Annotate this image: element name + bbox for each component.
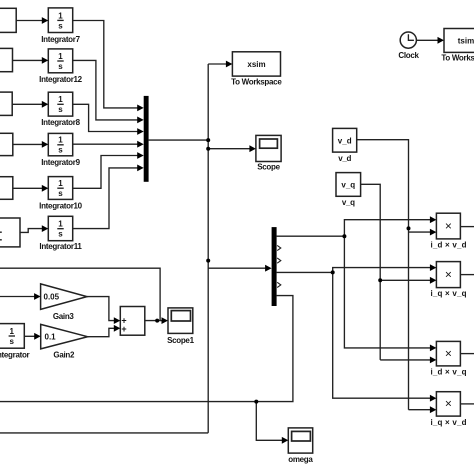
wire Integrator7 to Mux input 1 (73, 21, 139, 108)
wire v_d bottom to multiplier 4 input 2 (409, 409, 431, 411)
wire trunk vertical (207, 64, 209, 433)
junction dot v_q branch (378, 278, 382, 282)
svg-text:s: s (58, 21, 63, 30)
Integrator7 fraction bar (57, 19, 63, 21)
gain Gain2 triangle (41, 324, 88, 349)
wire branch to Demux (208, 267, 266, 269)
svg-text:1: 1 (58, 179, 63, 188)
wire Mux output to trunk node (149, 139, 209, 141)
wire input to Gain3 from left edge (0, 296, 35, 298)
svg-text:v_d: v_d (338, 137, 352, 146)
wire Clock to tsim To Workspace1 (416, 39, 438, 41)
block Scope1 (168, 308, 193, 334)
svg-text:Clock: Clock (398, 51, 419, 60)
wire v_q branch to multiplier 2 input 2 (380, 279, 431, 281)
svg-text:tsim: tsim (458, 37, 474, 46)
block v_d (333, 128, 357, 152)
arrowhead into Scope (249, 145, 256, 152)
arrowhead multiplier 2 input 2 (430, 277, 437, 284)
svg-text:1: 1 (58, 220, 63, 229)
svg-text:s: s (58, 230, 63, 239)
arrowhead into Demux (265, 265, 272, 272)
arrowhead multiplier 3 input 1 (430, 345, 437, 352)
wire v_q bottom to multiplier 3 input 2 (380, 359, 431, 361)
wire Demux output 6 (omega) long feedback to left edge (0, 296, 293, 402)
wire Demux output 1 (i_d) (277, 235, 345, 237)
arrowhead into Integrator9 (42, 141, 49, 148)
integrator Integrator12 (48, 49, 72, 73)
wire Integrator10 to Mux input 5 (73, 156, 139, 189)
svg-text:Integrator10: Integrator10 (39, 201, 82, 210)
arrowhead Mux input 1 (137, 105, 144, 112)
wire i_q branch down to multiplier 4 input 1 (333, 272, 431, 398)
multiplier block i_q x v_q (436, 262, 460, 288)
multiplier block i_d x v_d (436, 213, 460, 239)
arrowhead multiplier 1 input 2 (430, 229, 437, 236)
Integrator9 fraction bar (57, 144, 63, 146)
svg-text:s: s (58, 189, 63, 198)
unconnected Demux output 5 chevron (277, 282, 281, 287)
wire v_q to vertical drop (361, 184, 381, 360)
source block S1 (cut off at left edge) (0, 8, 16, 32)
arrowhead Sum input 2 (114, 325, 121, 332)
multiplier 3 output wire (460, 353, 474, 355)
arrowhead Mux input 6 (137, 165, 144, 172)
svg-text:Integrator7: Integrator7 (41, 35, 80, 44)
multiplier 1 output wire (460, 226, 474, 228)
source block S4 (0, 133, 13, 155)
svg-text:xsim: xsim (247, 60, 265, 69)
svg-text:1: 1 (58, 95, 63, 104)
svg-text:omega: omega (288, 455, 313, 464)
junction dot trunk at scope branch (206, 147, 210, 151)
arrowhead into Integrator12 (42, 57, 49, 64)
junction dot sum output feedback (155, 319, 159, 323)
integrator Integrator10 (48, 177, 72, 200)
wire i_d branch down to multiplier 3 input 1 (344, 236, 431, 348)
arrowhead into Gain2 (34, 333, 41, 340)
wire branch to Scope (208, 148, 250, 150)
omega scope screen (292, 431, 311, 441)
arrowhead multiplier 2 input 1 (430, 264, 437, 271)
junction dot trunk at demux branch (206, 259, 210, 263)
svg-text:i_d × v_d: i_d × v_d (430, 241, 466, 250)
arrowhead Mux input 3 (137, 128, 144, 135)
arrowhead into tsim To Workspace1 (438, 37, 445, 44)
wire omega branch to omega scope (256, 402, 282, 441)
block xsim To Workspace (232, 52, 280, 76)
block v_q (336, 173, 361, 197)
svg-text:0.05: 0.05 (44, 292, 60, 301)
wire S5 to Integrator10 (13, 187, 43, 189)
svg-text:i_q × v_q: i_q × v_q (430, 289, 466, 298)
source block S5 (0, 177, 13, 200)
unconnected Demux output 2 chevron (277, 245, 281, 250)
arrowhead multiplier 4 input 2 (430, 406, 437, 413)
svg-text:Integrator9: Integrator9 (41, 158, 80, 167)
svg-text:v_q: v_q (342, 198, 355, 207)
unconnected Demux output 3 chevron (277, 258, 281, 263)
svg-text:Scope1: Scope1 (167, 336, 195, 345)
wire Integrator to Gain2 (24, 335, 35, 337)
integrator Integrator (cut off at left edge) (0, 324, 24, 349)
arrowhead Mux input 5 (137, 152, 144, 159)
junction dot i_q branch (331, 270, 335, 274)
Integrator fraction bar (9, 335, 15, 337)
multiplier block i_d x v_q (436, 341, 460, 366)
svg-text:s: s (58, 105, 63, 114)
wire S2 to Integrator12 (13, 59, 43, 61)
svg-text:Integrator12: Integrator12 (39, 75, 82, 84)
arrowhead multiplier 1 input 1 (430, 216, 437, 223)
source block S3 (0, 92, 12, 115)
svg-text:×: × (445, 397, 452, 411)
svg-text:s: s (58, 62, 63, 71)
sum block Sum (120, 307, 145, 336)
source block S6 inner text marks (0, 232, 2, 240)
arrowhead into Scope1 (162, 317, 169, 324)
source block S2 (0, 48, 13, 71)
mux Mux bar (144, 96, 149, 182)
integrator Integrator11 (48, 216, 72, 240)
arrowhead into Integrator11 (42, 225, 49, 232)
multiplier block i_q x v_d (436, 392, 460, 416)
svg-text:0.1: 0.1 (45, 333, 57, 342)
arrowhead into omega scope (282, 437, 289, 444)
clock Clock (400, 32, 416, 48)
junction dot v_d branch (407, 226, 411, 230)
arrowhead into Integrator7 (42, 17, 49, 24)
block tsim To Workspace1 (cut off at right edge) (444, 29, 474, 53)
arrowhead Mux input 4 (137, 141, 144, 148)
wire S6 to Integrator11 (20, 229, 43, 233)
svg-text:Gain2: Gain2 (53, 351, 75, 360)
wire S1 to Integrator7 (16, 20, 42, 22)
svg-text:s: s (58, 146, 63, 155)
svg-text:v_d: v_d (338, 154, 351, 163)
wire i_d branch up to multiplier 1 input 1 (344, 220, 431, 237)
arrowhead multiplier 3 input 2 (430, 357, 437, 364)
svg-text:Integrator11: Integrator11 (39, 242, 82, 251)
arrowhead into Integrator8 (42, 101, 49, 108)
wire Integrator11 to Mux input 6 (73, 168, 139, 229)
source block S6 (0, 218, 20, 247)
svg-text:Gain3: Gain3 (53, 312, 75, 321)
svg-text:1: 1 (9, 327, 14, 336)
integrator Integrator8 (48, 92, 72, 116)
wire Integrator12 to Mux input 2 (73, 60, 139, 120)
svg-text:1: 1 (58, 136, 63, 145)
wire S4 to Integrator9 (13, 143, 43, 145)
gain Gain3 triangle (41, 284, 87, 310)
arrowhead into Integrator10 (42, 185, 49, 192)
Integrator10 fraction bar (57, 187, 63, 189)
Integrator11 fraction bar (57, 228, 63, 230)
Integrator8 fraction bar (57, 103, 63, 105)
Integrator12 fraction bar (57, 60, 63, 62)
block Scope (256, 135, 281, 161)
svg-text:i_d × v_q: i_d × v_q (430, 368, 466, 377)
Clock hands (408, 34, 414, 40)
arrowhead Mux input 2 (137, 117, 144, 124)
multiplier 4 output wire (460, 403, 474, 405)
svg-text:×: × (445, 267, 452, 281)
arrowhead multiplier 4 input 1 (430, 395, 437, 402)
wire Sum output to Scope1 (145, 320, 163, 322)
Scope1 screen (171, 311, 190, 321)
wire trunk top to xsim To Workspace (208, 63, 227, 65)
wire i_q branch up to multiplier 2 input 1 (333, 268, 431, 273)
svg-text:1: 1 (58, 52, 63, 61)
svg-text:To Workspace: To Workspace (441, 53, 474, 62)
integrator Integrator9 (48, 133, 72, 155)
junction dot i_d branch (342, 234, 346, 238)
wire Gain3 to Sum input 1 (87, 297, 115, 321)
wire S3 to Integrator8 (12, 103, 42, 105)
integrator Integrator7 (48, 8, 72, 33)
wire Integrator9 to Mux input 4 (73, 143, 139, 145)
arrowhead into Gain3 (34, 293, 41, 300)
demux Demux bar (272, 227, 277, 306)
svg-text:s: s (9, 337, 14, 346)
svg-text:Scope: Scope (257, 163, 280, 172)
svg-text:v_q: v_q (341, 181, 355, 190)
svg-text:1: 1 (58, 11, 63, 20)
svg-text:Integrator: Integrator (0, 351, 30, 360)
multiplier 2 output wire (460, 274, 474, 276)
arrowhead Sum input 1 (114, 317, 121, 324)
wire Integrator8 to Mux input 3 (73, 104, 139, 131)
svg-text:Integrator8: Integrator8 (41, 118, 80, 127)
wire Gain2 to Sum input 2 (88, 328, 115, 336)
block omega scope (288, 428, 312, 453)
junction dot trunk at mux line (206, 138, 210, 142)
arrowhead into xsim To Workspace (226, 61, 233, 68)
svg-text:×: × (445, 346, 452, 360)
junction dot omega branch (254, 400, 258, 404)
svg-text:×: × (445, 219, 452, 233)
svg-text:To Workspace: To Workspace (231, 77, 282, 86)
svg-text:+: + (121, 324, 126, 334)
wire Demux output 4 (i_q) (277, 271, 333, 273)
wire v_d branch to multiplier 1 input 2 (409, 231, 431, 233)
wire feedback from Sum output up and to left edge (0, 268, 160, 320)
wire v_d to vertical drop (357, 140, 409, 410)
wire trunk bottom to left edge (0, 432, 208, 434)
Scope screen (260, 139, 278, 148)
svg-text:i_q × v_d: i_q × v_d (430, 418, 466, 427)
